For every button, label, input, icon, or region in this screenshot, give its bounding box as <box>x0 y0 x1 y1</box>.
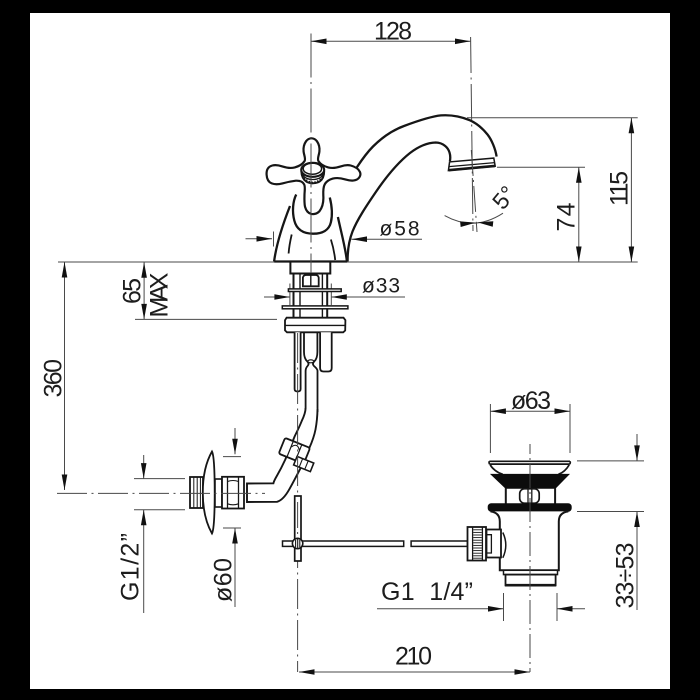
knurled nut <box>468 527 487 561</box>
drain vertical centerline <box>529 444 531 672</box>
33:53 upper extension line <box>577 460 644 462</box>
handle boss outer ellipse <box>301 163 324 177</box>
dimension 360 line <box>64 262 66 490</box>
tailpipe collar A <box>504 570 558 574</box>
deck reference line left <box>58 261 274 263</box>
dimension 115 line <box>630 118 632 262</box>
svg-text:74: 74 <box>553 202 581 231</box>
body interior line right <box>331 240 335 261</box>
drain plug cylinder <box>505 488 507 503</box>
supply pipe <box>247 408 318 502</box>
o33 right extension line <box>330 284 332 306</box>
o60 upper dim line <box>234 428 236 454</box>
pipe coupling collar <box>294 456 314 471</box>
outlet vertical centerline <box>471 37 473 231</box>
dimension 128 line <box>311 40 471 42</box>
svg-text:G1/2”: G1/2” <box>117 533 145 601</box>
faucet vertical centerline <box>310 34 312 274</box>
drain trumpet sides <box>490 465 569 475</box>
svg-text:ø60: ø60 <box>210 558 238 602</box>
33:53 upper dim line <box>636 434 638 461</box>
cross handle <box>267 138 361 214</box>
svg-text:ø58: ø58 <box>380 218 420 241</box>
outlet bottom extension line <box>497 166 585 168</box>
svg-text:G1 1/4”: G1 1/4” <box>381 578 473 606</box>
G1 1/4 right extension line <box>556 593 558 621</box>
washer 1 <box>288 289 341 292</box>
o60 lower dim line <box>234 528 236 607</box>
boss band mid arc <box>302 173 324 180</box>
dimension o58 left tail <box>246 238 273 240</box>
5 degree arc <box>445 213 503 223</box>
pop-up rod centerline <box>297 333 299 672</box>
faucet spout upper outline <box>357 115 497 167</box>
spout outlet aerator band <box>448 158 495 171</box>
body side port <box>487 530 502 558</box>
65 max plane line <box>135 318 277 320</box>
ball joint arc inside body <box>503 533 506 558</box>
dimension o58 right tail <box>352 238 423 240</box>
dimension o33 right tail <box>331 296 405 298</box>
outlet tilted 5-degree centerline <box>471 150 477 232</box>
deck reference line right <box>347 261 638 263</box>
faucet spout lower outline <box>348 143 451 262</box>
o60 lower extension line <box>223 527 241 529</box>
drain rim <box>489 461 570 464</box>
G1 1/4 right dim line <box>557 608 585 610</box>
o63 dim line <box>490 410 570 412</box>
faucet tailpiece with neck <box>304 332 309 410</box>
o58 left extension tick <box>273 232 275 247</box>
G1 1/4 left dim line <box>377 608 504 610</box>
flange collar <box>215 479 222 507</box>
spout top extension line <box>467 117 638 119</box>
svg-text:ø63: ø63 <box>511 387 551 415</box>
wall supply stub (G1/2 thread) <box>190 477 203 508</box>
o33 left extension line <box>289 284 291 306</box>
o60 upper extension line <box>223 456 241 458</box>
G1/2 upper extension line <box>134 478 185 480</box>
dimension 210 line <box>299 671 530 673</box>
svg-text:210: 210 <box>395 643 432 671</box>
handle boss inner ellipse <box>303 163 321 174</box>
o63 left extension line <box>489 404 491 453</box>
pipe coupling hex nut <box>279 438 310 464</box>
pop-up rod <box>295 332 301 391</box>
mounting plate <box>285 318 345 333</box>
tailpiece neck ellipse <box>308 360 314 363</box>
washer 2 <box>282 306 348 309</box>
wall flange (o60) <box>203 452 215 534</box>
lever cross vertical strip <box>295 496 301 561</box>
dimension texts <box>40 18 640 671</box>
tailpipe collar B (G1 1/4 thread) <box>506 575 556 586</box>
drain hatched flange <box>488 504 571 512</box>
faucet base bottom edge <box>274 260 347 262</box>
plug slot capsule <box>520 489 540 503</box>
o63 right extension line <box>569 404 571 453</box>
svg-text:128: 128 <box>374 18 412 46</box>
threaded shank inner lines <box>299 274 301 318</box>
drain hatched cone <box>491 474 569 488</box>
svg-text:115: 115 <box>606 171 634 206</box>
dimension o33 left tail <box>264 296 290 298</box>
lever clamp knurled screw <box>292 538 302 548</box>
port inner collar lines <box>487 535 492 553</box>
svg-text:65: 65 <box>119 278 147 304</box>
svg-text:33÷53: 33÷53 <box>612 543 640 609</box>
G1 1/4 left extension line <box>503 593 505 621</box>
33:53 lower dim line <box>636 512 638 611</box>
dimension 74 line <box>578 167 580 262</box>
svg-text:ø33: ø33 <box>362 275 400 298</box>
handle boss knurl band <box>301 171 324 183</box>
horizontal rod segment 1 <box>283 541 404 546</box>
33:53 lower extension line <box>577 511 644 513</box>
supply horizontal centerline <box>57 492 265 494</box>
threaded shank outer lines <box>293 274 295 318</box>
G1/2 lower dim line <box>143 510 145 613</box>
body interior line left <box>289 235 292 254</box>
faucet body left outline <box>274 206 290 261</box>
shank step block <box>290 262 330 274</box>
dimension 65MAX line <box>143 262 145 319</box>
knurl ticks <box>303 175 324 183</box>
shank hex nut <box>303 275 319 286</box>
handle bell skirt <box>293 195 332 234</box>
wall fitting hex nut <box>222 477 244 509</box>
horizontal rod segment 2 <box>411 541 467 546</box>
G1/2 lower extension line <box>134 509 185 511</box>
G1/2 upper dim line <box>143 455 145 479</box>
arrowheads <box>62 39 640 675</box>
svg-text:360: 360 <box>40 359 68 398</box>
faucet body right outline <box>338 217 347 261</box>
svg-text:MAX: MAX <box>146 272 174 317</box>
drain body <box>491 511 569 570</box>
rod guide tube <box>320 332 332 371</box>
